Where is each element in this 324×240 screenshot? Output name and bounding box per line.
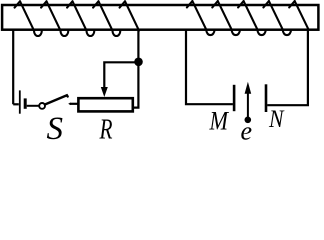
- rheostat wiper arrow: [101, 87, 108, 97]
- battery cell: [13, 90, 25, 113]
- primary coil L1 apex legs: [15, 1, 125, 7]
- charged particle e with velocity arrow: [245, 82, 252, 123]
- wire: wiper feed from junction: [104, 62, 136, 87]
- svg-text:R: R: [99, 113, 113, 141]
- wire: switch contact stub to rheostat: [68, 103, 78, 106]
- wire: secondary left terminal to plate M: [186, 30, 233, 104]
- wire: primary left terminal down to battery: [12, 31, 14, 105]
- secondary coil L2 apex legs: [187, 1, 295, 7]
- wire: primary right terminal down to rheostat right end: [134, 31, 138, 108]
- switch S: [39, 95, 68, 109]
- junction dot node A: [134, 58, 143, 67]
- svg-text:e: e: [241, 116, 253, 141]
- primary coil L1 bottom loops: [34, 31, 120, 36]
- rheostat R body: [78, 98, 132, 111]
- secondary coil L2 winding diagonals: [192, 1, 308, 30]
- label S: [47, 111, 64, 147]
- plate M: [233, 85, 236, 111]
- svg-text:N: N: [268, 106, 285, 133]
- secondary coil L2 bottom loops: [206, 30, 291, 35]
- label e: [241, 116, 253, 145]
- wire: battery to switch: [27, 105, 40, 107]
- iron core bar: [2, 5, 318, 30]
- label M: [209, 106, 229, 135]
- wire: secondary right terminal to plate N: [267, 29, 308, 105]
- svg-text:M: M: [209, 106, 229, 135]
- label N: [268, 106, 285, 133]
- svg-text:S: S: [47, 111, 64, 141]
- plate N: [265, 84, 268, 112]
- primary coil L1 winding diagonals: [20, 1, 139, 30]
- label R: [99, 113, 113, 145]
